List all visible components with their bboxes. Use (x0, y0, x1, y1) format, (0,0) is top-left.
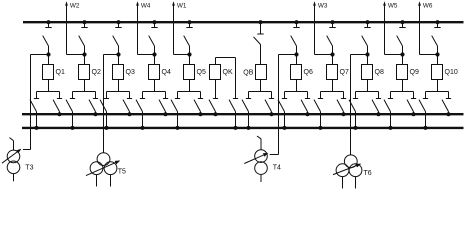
bay Q4: main-bus disconnectors (136, 80, 168, 130)
transformer T6 (three-winding, tap changer) (333, 155, 362, 189)
transformer T4 (two-winding, tap changer) (244, 136, 278, 182)
bay Q9: bus-side disconnector (397, 21, 406, 65)
bay QK: lead to bus-1 disconnector (209, 80, 218, 116)
bay Q4: bus-side disconnector (149, 21, 158, 65)
bay Q1: main-bus disconnectors (30, 80, 62, 130)
bay QB: main-bus disconnectors (242, 80, 274, 130)
svg-text:W5: W5 (388, 2, 398, 9)
breaker Q10 (432, 65, 443, 80)
bay Q10: bus-side disconnector (432, 21, 441, 65)
breaker Q9 (397, 65, 408, 80)
svg-text:Q7: Q7 (340, 69, 349, 76)
breaker Q6 (291, 65, 302, 80)
wire: tap from Q8 junction down to T6 (351, 55, 368, 156)
svg-text:W2: W2 (70, 2, 80, 9)
svg-text:W1: W1 (177, 2, 187, 9)
bay Q5: main-bus disconnectors (171, 80, 203, 130)
line feeder W6 (418, 1, 437, 54)
breaker Q2 (79, 65, 90, 80)
bay Q5: bus-side disconnector (184, 21, 193, 65)
bay Q1: bus-side disconnector (43, 21, 52, 65)
breaker QK (210, 65, 221, 80)
wire: main busbar 1 (22, 113, 464, 115)
svg-text:Q6: Q6 (304, 69, 313, 76)
breaker Q4 (149, 65, 160, 80)
wire: tap from Q1 junction down to T3 (31, 55, 49, 150)
svg-text:Q5: Q5 (197, 69, 206, 76)
svg-text:T5: T5 (118, 168, 126, 175)
bay Q6: bus-side disconnector (291, 21, 300, 65)
breaker Q8 (362, 65, 373, 80)
bay QB: bus-side disconnector (254, 21, 264, 65)
breaker Q5 (184, 65, 195, 80)
wire: tap from Q3 junction down to T5 (104, 55, 119, 153)
svg-text:QK: QK (223, 69, 233, 76)
wire: tap from Q6 junction down to T4 (279, 55, 297, 155)
wire: main busbar 2 (22, 127, 464, 129)
bay QK (bus coupler): loop to bus-2 disconnector (216, 58, 239, 130)
svg-text:W6: W6 (423, 2, 433, 9)
breaker QB (256, 65, 267, 80)
line feeder W4 (136, 1, 154, 54)
transformer T3 (two-winding, tap changer) (2, 138, 31, 182)
svg-text:T3: T3 (25, 165, 33, 172)
wire: bypass busbar (top) (23, 21, 464, 23)
line feeder W1 (172, 1, 189, 54)
svg-text:Q10: Q10 (445, 69, 458, 76)
bay Q8: main-bus disconnectors (349, 80, 381, 130)
transformer T5 (three-winding, tap changer) (86, 153, 120, 187)
svg-text:W4: W4 (141, 2, 151, 9)
svg-text:T4: T4 (273, 164, 281, 171)
svg-text:Q4: Q4 (162, 69, 171, 76)
breaker Q7 (327, 65, 338, 80)
bay Q7: bus-side disconnector (327, 21, 336, 65)
breaker Q3 (113, 65, 124, 80)
svg-text:Q2: Q2 (92, 69, 101, 76)
svg-text:QB: QB (243, 70, 253, 77)
bay Q9: main-bus disconnectors (384, 80, 416, 130)
svg-text:Q1: Q1 (56, 69, 65, 76)
bay Q7: main-bus disconnectors (314, 80, 346, 130)
bay Q6: main-bus disconnectors (278, 80, 310, 130)
svg-text:T6: T6 (364, 170, 372, 177)
line feeder W3 (313, 1, 332, 54)
svg-text:Q8: Q8 (375, 69, 384, 76)
svg-text:Q9: Q9 (410, 69, 419, 76)
line feeder W2 (65, 1, 84, 54)
bay Q3: bus-side disconnector (113, 21, 122, 65)
bay Q8: bus-side disconnector (362, 21, 371, 65)
line feeder W5 (383, 1, 402, 54)
bay Q3: main-bus disconnectors (100, 80, 132, 130)
bay Q2: bus-side disconnector (79, 21, 88, 65)
bay Q10: main-bus disconnectors (419, 80, 451, 130)
breaker Q1 (43, 65, 54, 80)
svg-text:W3: W3 (318, 2, 328, 9)
svg-text:Q3: Q3 (126, 69, 135, 76)
bay Q2: main-bus disconnectors (66, 80, 98, 130)
